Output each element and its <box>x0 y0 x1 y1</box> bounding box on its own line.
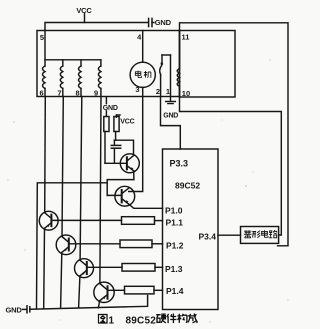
wire inner VCC bus <box>45 59 101 61</box>
wire P3.4 to shaper <box>218 234 241 236</box>
wire bus pin6 <box>44 97 47 213</box>
wire pin3 to Q2 collector <box>129 97 143 192</box>
svg-text:1: 1 <box>109 316 115 327</box>
pin 7 <box>57 89 61 98</box>
svg-text:10: 10 <box>182 89 190 98</box>
pin 1 <box>166 87 170 96</box>
transistor Q2 <box>115 186 135 206</box>
caption 图1 <box>98 314 114 326</box>
wire pin11 to right bus <box>180 23 289 246</box>
coil L5 sensor <box>179 31 181 69</box>
wire Q2 emitter to P1.0 <box>129 204 163 208</box>
node GND pullup <box>105 98 107 104</box>
wire emitter ground bus <box>31 296 148 310</box>
svg-text:GND: GND <box>103 105 118 112</box>
caption 硬件构成 <box>156 314 197 324</box>
svg-text:GND: GND <box>163 113 178 120</box>
wire pin1 to ground <box>170 97 172 102</box>
svg-text:8: 8 <box>76 89 80 98</box>
sensor box <box>180 31 236 98</box>
pin 8 <box>76 89 80 98</box>
svg-text:GND: GND <box>155 18 172 27</box>
transistor Q3 <box>39 211 58 230</box>
wire Q6 base to R6 <box>108 289 125 291</box>
svg-text:9: 9 <box>94 89 98 98</box>
wire bus pin8 <box>80 97 82 260</box>
pin 10 <box>182 89 190 98</box>
wire Q3 base to R3 <box>51 219 121 221</box>
VCC label top <box>76 6 92 15</box>
resistor R1 <box>105 111 107 117</box>
transistor Q4 <box>56 235 76 255</box>
wire Q2 base long <box>37 183 108 308</box>
wire pin2 to P3.3 <box>161 97 181 150</box>
wire VCC lead <box>84 14 86 23</box>
svg-text:2: 2 <box>156 87 160 96</box>
wire R2 to Q1 collector <box>114 140 133 155</box>
transistor Q5 <box>75 259 94 278</box>
chip 89C52 <box>163 149 219 310</box>
wire Q1 base <box>105 162 127 164</box>
svg-text:7: 7 <box>57 89 61 98</box>
motor unit box <box>37 31 180 97</box>
resistor R6 <box>125 286 155 294</box>
svg-text:P1.0: P1.0 <box>165 205 183 215</box>
wire coil L1 to pin 6 <box>44 88 46 96</box>
capacitor C1 <box>148 18 150 26</box>
svg-text:P1.1: P1.1 <box>166 218 184 228</box>
wire Q1 emitter <box>107 171 134 196</box>
switch S1 <box>162 54 171 56</box>
pin 11 <box>182 33 190 42</box>
shaper box <box>241 227 279 244</box>
svg-text:11: 11 <box>182 33 190 42</box>
coil L2 <box>62 60 64 66</box>
pin 3 <box>135 85 139 94</box>
pin 4 <box>137 33 142 42</box>
transistor Q1 <box>120 154 139 173</box>
svg-text:VCC: VCC <box>120 119 134 126</box>
motor M1 <box>130 62 155 87</box>
coil L4 <box>100 60 102 66</box>
wire Q2 base lead <box>107 194 122 196</box>
transistor Q6 <box>94 282 114 302</box>
coil L3 <box>80 60 82 66</box>
resistor R2 <box>116 115 120 117</box>
capacitor C2 <box>113 140 115 145</box>
label 整形电路 <box>244 230 277 238</box>
svg-text:6: 6 <box>40 89 44 98</box>
ground bottom left <box>6 306 23 315</box>
wire pin5 feed <box>44 31 46 67</box>
svg-text:5: 5 <box>40 33 44 42</box>
node GND top <box>155 18 172 27</box>
svg-text:P3.4: P3.4 <box>199 231 217 241</box>
pin 9 <box>94 89 98 98</box>
pin 5 <box>40 33 44 42</box>
wire Q6 emitter <box>98 301 99 308</box>
caption 图1 89C52 <box>126 316 157 327</box>
svg-text:89C52: 89C52 <box>175 181 200 191</box>
wire pin10 to right bus <box>180 97 282 236</box>
wire top VCC rail <box>45 23 148 31</box>
resistor R5 <box>122 264 155 272</box>
wire bus pin9 <box>100 97 101 283</box>
wire Q5 base to R5 <box>87 266 122 268</box>
scan speckles (decorative) <box>7 59 288 322</box>
pin 6 <box>40 89 44 98</box>
svg-text:P1.2: P1.2 <box>166 240 184 250</box>
wire Q4 emitter <box>61 253 62 308</box>
resistor R4 <box>120 240 152 248</box>
pin 2 <box>156 87 160 96</box>
wire Q5 emitter <box>79 276 80 308</box>
ground pin1 <box>166 101 176 103</box>
coil L1 <box>43 66 46 88</box>
wire bus pin7 <box>62 97 63 236</box>
svg-text:89C52: 89C52 <box>126 316 157 327</box>
resistor R3 <box>122 217 155 225</box>
wire Q4 base to R4 <box>69 243 120 245</box>
svg-text:GND: GND <box>6 306 23 315</box>
svg-text:P3.3: P3.3 <box>170 159 189 169</box>
wire Q3 emitter <box>43 228 46 307</box>
label 电机 <box>135 71 151 78</box>
svg-text:P1.3: P1.3 <box>165 264 183 274</box>
svg-text:P1.4: P1.4 <box>166 286 184 296</box>
svg-text:1: 1 <box>166 87 170 96</box>
